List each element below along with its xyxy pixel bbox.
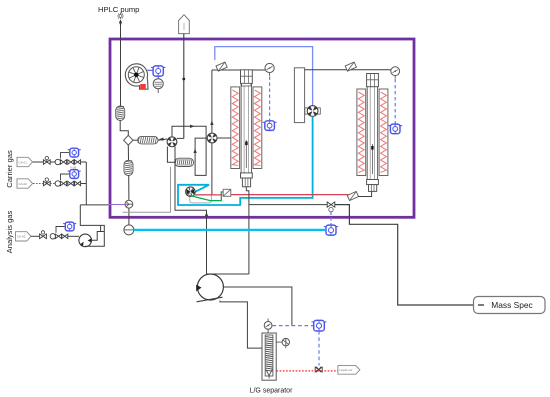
svg-text:L/G separator: L/G separator bbox=[250, 388, 293, 395]
svg-text:Carrier gas: Carrier gas bbox=[5, 150, 14, 188]
svg-text:Mass Spec: Mass Spec bbox=[491, 300, 532, 310]
svg-text:CA-03: CA-03 bbox=[17, 235, 26, 239]
svg-text:Liquid out: Liquid out bbox=[339, 368, 352, 372]
svg-text:CA-02: CA-02 bbox=[18, 182, 27, 186]
svg-text:CA-01: CA-01 bbox=[18, 160, 27, 164]
svg-text:Analysis gas: Analysis gas bbox=[5, 210, 14, 253]
svg-text:HPLC pump: HPLC pump bbox=[98, 5, 139, 14]
svg-text:V-09: V-09 bbox=[70, 165, 77, 169]
